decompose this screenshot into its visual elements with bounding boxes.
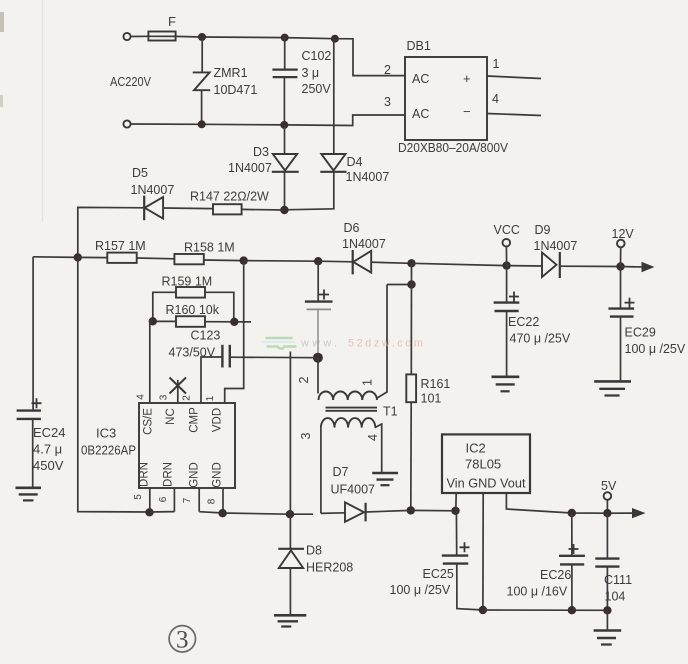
terminal VCC <box>503 239 511 247</box>
wire to Vin node <box>411 509 456 511</box>
wire EC22 bottom lead <box>506 311 508 376</box>
svg-text:C123: C123 <box>191 329 221 343</box>
wire R147 right lead <box>242 208 285 211</box>
svg-text:1N4007: 1N4007 <box>534 239 578 253</box>
capacitor C111 <box>595 559 619 567</box>
transformer T1 primary winding <box>319 392 377 401</box>
wire R159 right stub <box>205 292 234 321</box>
wire left rail down <box>78 257 150 512</box>
svg-text:4: 4 <box>492 92 499 106</box>
resistor R158 <box>174 254 203 264</box>
svg-text:250V: 250V <box>302 82 332 96</box>
svg-text:GND: GND <box>212 462 224 488</box>
svg-text:D7: D7 <box>333 465 349 479</box>
svg-text:450V: 450V <box>33 458 64 473</box>
watermark text <box>300 338 425 350</box>
scan artifact left edge streak <box>0 0 43 222</box>
svg-text:AC: AC <box>412 72 429 86</box>
resistor R159 <box>176 287 205 298</box>
svg-text:3: 3 <box>159 394 170 400</box>
node junction ZMR1 bottom <box>198 120 206 128</box>
wire rail to snubber node <box>244 260 319 263</box>
ground EC22 <box>492 377 520 392</box>
capacitor EC22 <box>494 292 520 312</box>
wire bottom ground rail <box>483 609 608 611</box>
svg-text:5V: 5V <box>601 479 617 493</box>
svg-text:1: 1 <box>205 395 216 401</box>
svg-text:D9: D9 <box>535 223 551 237</box>
node junction D3/D4 cathodes <box>280 206 288 214</box>
svg-text:Vin GND Vout: Vin GND Vout <box>447 476 526 491</box>
svg-text:7: 7 <box>182 497 193 503</box>
watermark logo <box>261 338 297 349</box>
svg-text:ZMR1: ZMR1 <box>214 66 248 80</box>
svg-text:2: 2 <box>297 376 311 383</box>
wire R157 to R158 <box>137 257 175 260</box>
terminal AC line 1 <box>123 33 130 40</box>
svg-text:4: 4 <box>136 394 147 400</box>
diode D9 <box>542 252 560 278</box>
wire Vin stub <box>455 493 457 511</box>
diode D4 <box>320 154 346 172</box>
capacitor EC24 <box>17 398 42 419</box>
fuse F <box>148 32 175 41</box>
arrow 5V output <box>632 508 646 518</box>
svg-text:100 μ /25V: 100 μ /25V <box>625 342 686 356</box>
no-connect X mark pin3 <box>170 378 187 394</box>
svg-text:EC26: EC26 <box>540 568 571 582</box>
wire EC29 bottom lead <box>620 317 622 381</box>
svg-text:EC29: EC29 <box>625 326 656 340</box>
wire output rail ground stub <box>606 610 608 630</box>
wire R158 to VDD node <box>204 259 244 262</box>
node junction C102 top <box>281 34 289 42</box>
terminal 5V <box>604 492 612 500</box>
node junction rail/D5/EC24 <box>74 253 82 261</box>
regulator IC2 78L05 box <box>442 434 530 493</box>
svg-text:HER208: HER208 <box>306 561 353 575</box>
svg-text:D8: D8 <box>306 544 322 558</box>
wire pin 7 stub <box>198 488 200 512</box>
diode D7 <box>345 502 366 522</box>
svg-text:T1: T1 <box>383 405 398 419</box>
capacitor C123 <box>222 345 229 368</box>
node junction EC26 top <box>568 509 576 517</box>
capacitor snubber polarized <box>305 290 333 310</box>
wire D4 bottom lead and corner <box>284 172 333 210</box>
node junction rail/12V/EC29 <box>616 262 624 270</box>
svg-text:EC24: EC24 <box>33 425 66 440</box>
svg-text:DRN: DRN <box>163 462 175 487</box>
svg-text:R160 10k: R160 10k <box>166 303 220 317</box>
svg-text:1N4007: 1N4007 <box>228 161 272 175</box>
wire Vout stub and 5V line <box>506 493 633 513</box>
figure number circled 3 <box>169 626 195 654</box>
svg-text:GND: GND <box>189 462 201 488</box>
svg-text:R161: R161 <box>421 377 451 391</box>
ground D8 <box>274 615 306 626</box>
svg-text:3: 3 <box>299 432 313 439</box>
wire pin 8 stub <box>222 488 224 513</box>
wire R160 left lead <box>153 320 176 322</box>
wire R160 right lead with overhang <box>205 321 251 323</box>
wire secondary pin4 lead <box>375 424 382 472</box>
wire ZMR1 bottom lead <box>201 90 203 124</box>
wire primary pin1 lead <box>377 285 387 399</box>
svg-text:1N4007: 1N4007 <box>342 237 386 251</box>
resistor R147 <box>213 204 242 214</box>
svg-text:VCC: VCC <box>494 223 520 237</box>
svg-text:F: F <box>168 14 176 29</box>
svg-text:EC25: EC25 <box>423 567 454 581</box>
svg-text:D6: D6 <box>344 221 360 235</box>
node junction Vin/EC25 <box>451 507 459 515</box>
wire C111 bottom lead <box>606 567 608 611</box>
wire D6 to R161 node <box>371 262 411 263</box>
svg-text:DB1: DB1 <box>407 39 431 53</box>
wire D8 branch vertical <box>289 352 291 549</box>
wire rail arrow 12V <box>621 266 644 269</box>
svg-text:NC: NC <box>165 408 177 425</box>
svg-text:1: 1 <box>361 379 375 386</box>
capacitor EC25 <box>442 542 470 563</box>
wire VCC stub <box>505 247 507 266</box>
svg-text:12V: 12V <box>612 227 635 241</box>
wire D3 top lead <box>284 125 286 154</box>
wire rail pin7 to D8 node <box>199 512 313 515</box>
svg-text:D5: D5 <box>132 166 148 180</box>
svg-text:D20XB80–20A/800V: D20XB80–20A/800V <box>398 141 509 155</box>
wire snubber cap bottom lead <box>317 309 319 357</box>
wire secondary to D7 <box>321 512 345 515</box>
svg-text:IC2: IC2 <box>466 441 486 456</box>
svg-text:D4: D4 <box>347 155 363 169</box>
svg-text:IC3: IC3 <box>96 426 116 441</box>
node junction R161/pin1 <box>407 280 415 288</box>
wire rail pin5 to pin6 <box>150 511 175 513</box>
node junction CMP net <box>313 353 323 363</box>
svg-text:CMP: CMP <box>189 407 201 433</box>
node junction D8/rail <box>286 510 294 518</box>
svg-text:2: 2 <box>182 395 193 401</box>
terminal 12V <box>617 240 625 248</box>
svg-text:EC22: EC22 <box>508 315 539 329</box>
node junction C111 bottom <box>603 606 611 614</box>
svg-text:AC220V: AC220V <box>110 75 152 89</box>
wire EC25 top lead <box>455 511 457 555</box>
wire D3 bottom lead <box>284 172 286 210</box>
varistor ZMR1 <box>193 72 211 90</box>
wire C123 left lead to CMP pin2 <box>201 357 222 403</box>
svg-text:www.: www. <box>300 338 340 350</box>
wire 12V stub <box>620 247 622 266</box>
op IC3 0B2226AP box <box>139 403 235 488</box>
svg-text:3: 3 <box>176 627 189 654</box>
svg-text:3: 3 <box>384 95 391 109</box>
ground EC29 <box>594 381 631 395</box>
wire 5V stub <box>606 500 608 513</box>
capacitor C102 <box>272 70 297 78</box>
svg-text:+: + <box>463 71 471 86</box>
svg-text:4.7 μ: 4.7 μ <box>33 442 62 457</box>
diode D8 <box>278 549 304 568</box>
svg-text:DRN: DRN <box>139 462 151 487</box>
node junction rail/R161 <box>407 259 415 267</box>
svg-text:10D471: 10D471 <box>214 83 258 97</box>
svg-text:AC: AC <box>412 107 429 121</box>
svg-text:5: 5 <box>133 494 144 500</box>
wire C102 bottom lead <box>283 78 285 125</box>
svg-text:8: 8 <box>207 498 218 504</box>
svg-text:CS/E: CS/E <box>143 408 155 435</box>
wire DB1 pin1 output <box>487 76 541 79</box>
transformer T1 secondary winding <box>321 418 375 428</box>
svg-text:R159 1M: R159 1M <box>162 275 213 289</box>
wire NC pin3 stub <box>177 380 179 403</box>
node junction rail/VCC/EC22 <box>502 261 510 269</box>
resistor R160 <box>176 316 205 327</box>
wire GND stub <box>482 493 484 610</box>
wire DB1 pin4 output <box>487 114 541 116</box>
wire EC24 bottom lead <box>32 419 34 487</box>
svg-text:6: 6 <box>158 496 169 502</box>
wire CS/E pin4 lead <box>150 321 153 403</box>
wire ZMR1 top lead <box>201 37 203 72</box>
svg-text:104: 104 <box>605 590 626 604</box>
node junction pin8 <box>218 509 226 517</box>
wire VCC node to D9 <box>507 265 542 267</box>
terminal AC line 2 <box>123 120 130 127</box>
svg-text:3 μ: 3 μ <box>302 66 320 80</box>
transformer T1 core <box>326 408 378 411</box>
resistor R157 <box>107 253 136 263</box>
svg-text:4: 4 <box>366 434 380 441</box>
wire D5 left lead to rail <box>78 207 144 257</box>
svg-text:78L05: 78L05 <box>465 457 501 472</box>
wire R161 top lead <box>410 263 412 374</box>
capacitor EC29 <box>608 298 634 317</box>
wire VDD branch vertical <box>225 261 244 403</box>
svg-text:UF4007: UF4007 <box>331 483 376 497</box>
diode D3 <box>272 154 299 172</box>
wire primary pin2 lead <box>317 358 319 394</box>
wire snubber cap top lead <box>317 261 319 301</box>
node junction GND/bottom rail <box>479 606 487 614</box>
wire secondary pin3 lead <box>320 428 322 514</box>
wire EC25 bottom lead <box>457 564 483 610</box>
node junction R159/R160 left <box>149 317 157 325</box>
node junction R161 bottom <box>407 506 415 514</box>
svg-text:D3: D3 <box>253 145 269 159</box>
svg-text:101: 101 <box>421 392 442 406</box>
node junction rail/snubber cap <box>314 257 322 265</box>
diode D5 <box>144 196 163 221</box>
wire C111 top lead <box>606 513 608 558</box>
svg-text:VDD: VDD <box>212 408 224 432</box>
bridge rectifier DB1 <box>405 57 487 140</box>
svg-text:1N4007: 1N4007 <box>346 170 390 184</box>
wire main rail left corner to EC24 <box>33 256 78 259</box>
svg-text:C102: C102 <box>302 49 332 63</box>
wire D7 to R161 node <box>366 510 411 512</box>
svg-text:R158 1M: R158 1M <box>184 241 235 255</box>
wire C123 right lead to CMP node <box>230 356 318 359</box>
wire EC29 top lead <box>620 267 622 309</box>
wire pin1 to R161 node <box>387 284 412 286</box>
node junction fuse/ZMR1 <box>198 33 206 41</box>
wire rail to VCC node <box>412 263 507 265</box>
wire EC22 top lead <box>506 266 508 302</box>
wire pin 5 stub <box>149 488 151 512</box>
svg-text:C111: C111 <box>604 573 632 587</box>
ground T1 pin4 <box>372 473 398 485</box>
arrow 12V output <box>642 262 655 272</box>
wire EC26 bottom lead <box>571 564 573 610</box>
node junction pin5/rail <box>145 508 153 516</box>
svg-text:100 μ /25V: 100 μ /25V <box>390 583 451 597</box>
wire pin 6 stub <box>173 488 175 512</box>
svg-text:2: 2 <box>384 63 391 77</box>
svg-text:R147 22Ω/2W: R147 22Ω/2W <box>190 190 269 204</box>
svg-text:1N4007: 1N4007 <box>131 183 175 197</box>
wire D9 to 12V node <box>560 265 621 267</box>
svg-text:R157 1M: R157 1M <box>95 239 146 253</box>
wire D4 top lead <box>333 39 335 154</box>
wire EC26 top lead <box>571 513 573 555</box>
capacitor EC26 <box>559 544 585 564</box>
wire R159 left stub <box>153 292 176 321</box>
wire D5 to R147 <box>163 207 213 210</box>
wire rail to R157 <box>78 256 108 258</box>
wire R161 bottom lead <box>410 402 412 510</box>
wire D8 bottom lead <box>289 568 291 615</box>
ground output rail <box>594 631 622 645</box>
svg-text:−: − <box>463 104 471 119</box>
node junction EC26 bottom <box>568 606 576 614</box>
svg-text:1: 1 <box>493 57 500 71</box>
wire top AC line <box>131 36 405 75</box>
node junction D4 top <box>331 35 339 43</box>
node junction R159/R160 right <box>230 318 238 326</box>
ground EC24 <box>16 488 42 501</box>
svg-text:52dzw.com: 52dzw.com <box>348 338 425 350</box>
wire C102 top lead <box>284 38 286 69</box>
node junction C102 bottom <box>280 121 288 129</box>
node junction rail/VDD branch <box>240 256 248 264</box>
diode D6 <box>353 250 372 274</box>
node junction C111/5V <box>603 509 611 517</box>
wire rail to D6 <box>318 260 353 263</box>
wire EC24 top lead <box>32 257 34 410</box>
svg-text:100 μ /16V: 100 μ /16V <box>507 585 568 599</box>
resistor R161 <box>406 374 416 402</box>
wire bottom AC line <box>131 115 405 126</box>
svg-text:0B2226AP: 0B2226AP <box>81 443 136 458</box>
svg-text:470 μ /25V: 470 μ /25V <box>510 332 571 346</box>
